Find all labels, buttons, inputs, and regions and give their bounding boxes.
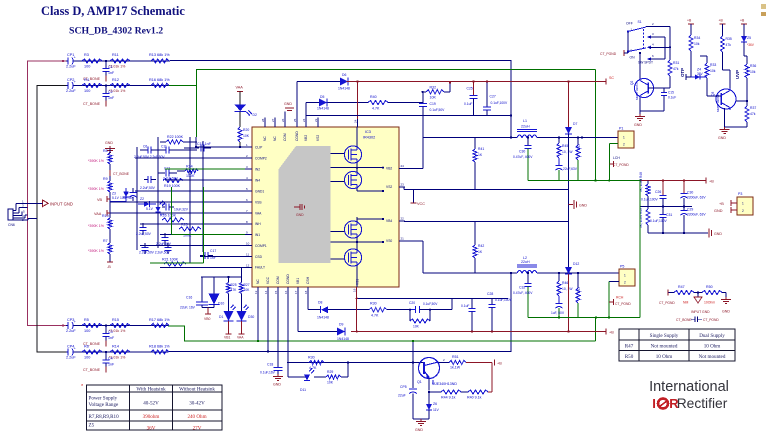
wire red vert xyxy=(491,363,493,393)
svg-text:CP2: CP2 xyxy=(67,78,74,82)
junction out1 xyxy=(510,136,512,138)
resistor R41 xyxy=(474,138,476,150)
svg-text:UVP: UVP xyxy=(735,70,740,79)
svg-text:28: 28 xyxy=(261,118,265,122)
resistor R13 xyxy=(151,59,169,63)
svg-text:CP5: CP5 xyxy=(400,385,407,389)
svg-text:P3: P3 xyxy=(738,192,742,196)
resistor R24 xyxy=(185,169,198,173)
capacitor CP2 xyxy=(68,82,74,90)
wire green bus upper xyxy=(528,180,641,182)
svg-text:R18 68k 1%: R18 68k 1% xyxy=(149,345,170,349)
junction xyxy=(472,80,474,82)
resistor R16 xyxy=(151,83,169,87)
led D11 xyxy=(303,376,307,378)
svg-text:11: 11 xyxy=(246,253,249,257)
resistor R47 xyxy=(674,290,694,294)
diode D9 1N4148 xyxy=(337,328,345,336)
transistor Q3 MMBT3906 xyxy=(716,89,736,109)
wire fault lines xyxy=(201,276,242,278)
svg-text:Power Supply: Power Supply xyxy=(89,396,118,402)
svg-text:D12: D12 xyxy=(573,262,579,266)
resistor R18 xyxy=(151,350,169,354)
wire M2 bottom xyxy=(356,188,358,191)
svg-text:R19 100K: R19 100K xyxy=(164,184,181,188)
svg-text:R45: R45 xyxy=(562,144,568,148)
wire out1 xyxy=(423,137,517,139)
svg-text:24: 24 xyxy=(401,164,405,168)
wire green feedback bottom xyxy=(168,326,596,341)
svg-text:10k: 10k xyxy=(694,42,700,46)
wire pin10 xyxy=(140,245,245,247)
table power supply options xyxy=(87,385,223,430)
wire base line xyxy=(287,362,424,364)
svg-text:R40: R40 xyxy=(370,95,377,99)
junction xyxy=(581,136,583,138)
wire vs2 node xyxy=(331,167,358,169)
wire xyxy=(109,254,111,262)
capacitor c-row3 xyxy=(144,179,148,181)
wire pin13 down xyxy=(257,296,259,342)
svg-text:VB1: VB1 xyxy=(224,336,231,340)
junction xyxy=(527,136,529,138)
wire out2 xyxy=(423,272,517,274)
svg-text:R14: R14 xyxy=(112,345,119,349)
svg-text:Single Supply: Single Supply xyxy=(650,333,679,339)
junction xyxy=(356,330,358,332)
svg-text:2.2uF,50V 2.2uF,50V: 2.2uF,50V 2.2uF,50V xyxy=(139,251,170,255)
junction xyxy=(356,80,358,82)
connector P1 xyxy=(618,131,634,148)
resistor R5 xyxy=(82,323,102,327)
svg-text:Class D, AMP17 Schematic: Class D, AMP17 Schematic xyxy=(41,4,185,18)
wire pin18 down xyxy=(307,296,309,310)
resistor R50 xyxy=(702,290,722,294)
svg-text:R6: R6 xyxy=(84,345,89,349)
junction xyxy=(105,84,107,86)
net CT_POND P5 xyxy=(609,301,613,303)
svg-text:C6: C6 xyxy=(143,145,147,149)
net CT_BONE row4 xyxy=(105,367,107,373)
svg-text:240 Ohm: 240 Ohm xyxy=(187,414,206,420)
svg-text:VS2: VS2 xyxy=(316,135,320,141)
capacitor C27b xyxy=(662,207,664,215)
svg-text:0.1uF,100V: 0.1uF,100V xyxy=(495,298,512,302)
svg-text:VB0: VB0 xyxy=(204,317,211,321)
wire pin8 xyxy=(140,223,245,225)
wire pin12 FAULT xyxy=(160,266,245,268)
svg-text:10K: 10K xyxy=(327,381,334,385)
svg-text:Q1: Q1 xyxy=(417,380,422,384)
svg-text:GND: GND xyxy=(634,123,642,127)
svg-text:1: 1 xyxy=(623,136,625,140)
ground top of bias chain xyxy=(109,146,111,149)
resistor R26 xyxy=(162,218,184,222)
IC die gray region xyxy=(279,146,331,263)
svg-text:22uF: 22uF xyxy=(398,394,406,398)
svg-text:R44 9.1k: R44 9.1k xyxy=(441,396,456,400)
top pin 28 NC xyxy=(264,118,266,128)
svg-text:10 Ohm: 10 Ohm xyxy=(704,344,721,350)
svg-text:100: 100 xyxy=(84,89,90,93)
svg-text:GND: GND xyxy=(579,204,587,208)
capacitor C28 xyxy=(491,298,493,304)
svg-text:+B: +B xyxy=(497,362,502,366)
wire D8 row xyxy=(308,309,321,311)
capacitor C16 xyxy=(196,301,208,303)
connector P5 xyxy=(619,269,635,286)
svg-text:C30: C30 xyxy=(687,191,693,195)
wire M1-M2 xyxy=(356,163,358,172)
svg-text:R47: R47 xyxy=(678,285,685,289)
switch contacts xyxy=(646,26,670,28)
svg-text:D11: D11 xyxy=(300,388,306,392)
resistor R40 xyxy=(368,100,388,104)
capacitor C31 xyxy=(556,303,563,305)
svg-text:1: 1 xyxy=(624,274,626,278)
wire black input ground rail xyxy=(37,86,66,353)
wire green vert B xyxy=(203,187,205,263)
svg-text:CT_POND: CT_POND xyxy=(615,302,631,306)
right pin 23 VS2 xyxy=(399,186,405,188)
svg-text:1K: 1K xyxy=(478,153,483,157)
resistor R14 xyxy=(110,350,130,354)
transistor M2 MOSFET xyxy=(344,171,361,188)
svg-text:R46: R46 xyxy=(562,281,568,285)
wire VS2 node xyxy=(422,116,424,138)
wire pin5 to tick xyxy=(627,52,629,54)
svg-text:R7,R8,R9,R10: R7,R8,R9,R10 xyxy=(89,414,120,420)
ground R50 xyxy=(725,293,727,298)
svg-text:Z3: Z3 xyxy=(112,192,116,196)
pin 11 CSD xyxy=(245,256,252,258)
svg-text:VSS: VSS xyxy=(255,200,262,204)
wire pin7 VAA xyxy=(110,212,245,214)
wire VS1 node xyxy=(422,241,424,273)
resistor R39 parallel xyxy=(409,310,411,321)
capacitor C28e xyxy=(683,181,685,194)
pin 12 FAULT xyxy=(245,266,252,268)
capacitor C20 series xyxy=(410,309,416,311)
junction xyxy=(105,351,107,353)
op-amp U1 IC3 IR4302 body xyxy=(252,127,399,287)
svg-text:0.47uF, 400V: 0.47uF, 400V xyxy=(513,291,533,295)
capacitor C18 xyxy=(274,367,283,369)
svg-text:P5: P5 xyxy=(620,265,624,269)
svg-text:+B: +B xyxy=(740,19,745,23)
wire xyxy=(109,229,111,243)
svg-text:4.7K: 4.7K xyxy=(309,366,317,370)
svg-text:R27: R27 xyxy=(244,283,250,287)
svg-text:R35: R35 xyxy=(726,37,732,41)
svg-text:C17: C17 xyxy=(210,249,216,253)
wire Q2 collector xyxy=(639,53,641,79)
wire rowB to rowA xyxy=(432,309,452,311)
pin 3 IN2 xyxy=(245,168,252,170)
wire collector xyxy=(439,362,450,364)
wire pin11 CSD xyxy=(200,256,245,258)
wire Q2 base xyxy=(648,87,670,89)
net CT_BONE row3 xyxy=(105,341,107,347)
capacitor C15 xyxy=(184,147,199,149)
wire D5 row xyxy=(306,102,319,104)
net VB0 xyxy=(207,308,209,315)
wire Q3 base xyxy=(715,95,721,97)
resistor R32 xyxy=(423,91,427,93)
svg-text:4.7K: 4.7K xyxy=(372,107,380,111)
wire cluster vertical b xyxy=(157,137,159,248)
svg-text:2: 2 xyxy=(624,281,626,285)
top pin 25 CGND xyxy=(296,118,298,128)
svg-text:5.1V: 5.1V xyxy=(146,207,154,211)
svg-text:24: 24 xyxy=(302,118,306,122)
capacitor C25 xyxy=(473,82,475,96)
svg-text:INPUT GND: INPUT GND xyxy=(691,310,710,314)
wire branch join xyxy=(347,363,349,378)
svg-text:0.1uF,50V: 0.1uF,50V xyxy=(430,108,446,112)
ground Q3 xyxy=(724,127,726,130)
pin 5 GND1 xyxy=(245,190,252,192)
led D14 xyxy=(241,294,243,312)
svg-text:CT_PGND: CT_PGND xyxy=(600,52,617,56)
wire mid line 2 xyxy=(399,220,404,222)
svg-text:C20: C20 xyxy=(409,301,415,305)
svg-text:23: 23 xyxy=(314,118,318,122)
svg-text:R31: R31 xyxy=(673,61,679,65)
svg-text:100K: 100K xyxy=(183,234,192,238)
svg-text:R22 100K: R22 100K xyxy=(167,135,184,139)
ground C18 xyxy=(277,374,279,377)
svg-text:23: 23 xyxy=(401,183,405,187)
svg-text:100K: 100K xyxy=(186,174,195,178)
svg-text:CT_BONE: CT_BONE xyxy=(676,318,692,322)
svg-text:C5: C5 xyxy=(124,191,128,195)
resistor R22 xyxy=(166,140,183,144)
resistor R30b xyxy=(369,308,387,312)
svg-text:47k: 47k xyxy=(673,67,679,71)
svg-text:1N4148: 1N4148 xyxy=(337,337,349,341)
svg-text:10, 1W: 10, 1W xyxy=(562,150,573,154)
top pin 24 VB xyxy=(357,119,359,127)
svg-text:0.1uF,100V: 0.1uF,100V xyxy=(641,198,658,202)
svg-text:VAA: VAA xyxy=(237,336,244,340)
svg-text:C10: C10 xyxy=(159,202,165,206)
svg-text:+B: +B xyxy=(687,19,692,23)
capacitor c-row6 pair xyxy=(142,247,149,249)
capacitor CP3 xyxy=(68,322,74,330)
capacitor C1 xyxy=(105,61,107,68)
svg-text:IN1: IN1 xyxy=(255,233,260,237)
resistor R7 xyxy=(108,243,112,254)
junction xyxy=(558,316,560,318)
svg-text:R42: R42 xyxy=(478,244,484,248)
capacitor c-row4 xyxy=(140,227,147,229)
svg-text:NM: NM xyxy=(683,301,688,305)
wire M3-M4 xyxy=(356,238,358,250)
resistor R35 xyxy=(722,24,724,36)
wire gate3 xyxy=(331,231,346,233)
net VB xyxy=(106,196,108,202)
wire vs1 node xyxy=(331,241,358,243)
svg-text:Dual Supply: Dual Supply xyxy=(699,333,725,339)
junction xyxy=(428,391,430,393)
svg-text:IR4302: IR4302 xyxy=(363,136,375,140)
svg-text:*390K 1%: *390K 1% xyxy=(88,187,105,191)
svg-text:R23: R23 xyxy=(181,223,188,227)
resistor R31 xyxy=(668,60,672,76)
wire cluster vertical a xyxy=(136,147,138,250)
resistor R6 xyxy=(82,350,102,354)
svg-text:R47: R47 xyxy=(625,344,634,350)
net +B P3 xyxy=(731,202,737,204)
capacitor C26 xyxy=(662,181,664,196)
inductor L2 xyxy=(517,271,537,274)
svg-text:R29: R29 xyxy=(327,370,333,374)
resistor R44 xyxy=(429,391,441,393)
net CT_BONE row1 xyxy=(105,76,107,82)
input gnd mid xyxy=(697,291,699,293)
wire rowA xyxy=(357,297,508,299)
bottom pin 13 NC xyxy=(257,287,259,296)
svg-text:10k: 10k xyxy=(750,70,756,74)
wire switch common xyxy=(627,32,629,52)
svg-text:CT_PGND: CT_PGND xyxy=(659,301,675,305)
svg-text:GND: GND xyxy=(714,209,723,213)
pin 6 VSS xyxy=(245,201,252,203)
svg-text:Z5: Z5 xyxy=(747,36,751,40)
wire gnd join xyxy=(413,418,429,420)
svg-text:2200uF, 63V: 2200uF, 63V xyxy=(687,213,706,217)
svg-text:16: 16 xyxy=(284,290,288,294)
wire D9 row xyxy=(298,331,337,333)
svg-text:0.1uF,50V: 0.1uF,50V xyxy=(423,302,438,306)
connector CN6 xyxy=(8,209,13,220)
resistor R20 xyxy=(239,112,241,128)
svg-text:R30: R30 xyxy=(308,356,315,360)
svg-text:GND: GND xyxy=(718,136,726,140)
svg-text:VCC: VCC xyxy=(417,202,425,206)
svg-text:*390K 1%: *390K 1% xyxy=(88,224,105,228)
svg-text:CT_BONE: CT_BONE xyxy=(83,102,101,106)
wire row1 xyxy=(66,60,170,62)
resistor R8 xyxy=(108,153,112,164)
svg-text:5.1V: 5.1V xyxy=(112,196,120,200)
bottom pin 18 CSH xyxy=(307,287,309,296)
resistor R43 xyxy=(577,138,579,146)
wire pin16 down xyxy=(287,296,289,378)
svg-text:10K: 10K xyxy=(243,134,250,138)
inductor L1 xyxy=(517,135,537,138)
switch arms xyxy=(628,27,646,32)
svg-text:R25: R25 xyxy=(231,283,237,287)
svg-text:VB1: VB1 xyxy=(296,278,300,284)
svg-text:-B: -B xyxy=(107,265,111,269)
svg-text:1k,1W: 1k,1W xyxy=(450,366,461,370)
resistor R15 xyxy=(110,323,130,327)
svg-text:R43: R43 xyxy=(577,144,581,150)
svg-text:Not mounted: Not mounted xyxy=(651,344,678,350)
resistor R9 xyxy=(108,181,112,192)
transistor Q1 MJE340 xyxy=(419,358,440,379)
wire green comp xyxy=(150,262,204,264)
svg-text:R41: R41 xyxy=(478,147,484,151)
resistor R10 xyxy=(108,218,112,229)
svg-text:D5: D5 xyxy=(320,95,324,99)
resistor R3 xyxy=(82,59,102,63)
svg-text:INPUT GND: INPUT GND xyxy=(50,202,73,207)
pin 4 IN4 xyxy=(245,179,252,181)
svg-text:R17 68k 1%: R17 68k 1% xyxy=(149,318,170,322)
ground mid xyxy=(569,204,574,206)
svg-text:15: 15 xyxy=(274,290,278,294)
svg-text:L1: L1 xyxy=(523,119,527,123)
svg-text:R8: R8 xyxy=(103,149,108,153)
svg-text:2.2uF: 2.2uF xyxy=(66,356,76,360)
svg-text:Q3: Q3 xyxy=(711,92,715,96)
svg-text:14: 14 xyxy=(264,290,268,294)
svg-text:GND: GND xyxy=(415,428,423,432)
svg-text:10: 10 xyxy=(246,242,250,246)
svg-text:With Heatsink: With Heatsink xyxy=(136,387,166,393)
diode D6 1N4148 xyxy=(340,78,348,86)
svg-text:2.2uF: 2.2uF xyxy=(66,89,76,93)
svg-text:VAA: VAA xyxy=(94,212,102,216)
resistor R21 xyxy=(164,262,186,266)
svg-text:36V: 36V xyxy=(697,72,704,76)
svg-text:100: 100 xyxy=(84,65,90,69)
svg-text:C29: C29 xyxy=(687,208,693,212)
svg-text:Z5: Z5 xyxy=(89,423,95,429)
wire P5 pin2 xyxy=(609,281,619,283)
svg-text:R30: R30 xyxy=(370,302,377,306)
svg-text:25: 25 xyxy=(293,118,297,122)
led D1 xyxy=(155,207,160,212)
svg-text:CP1: CP1 xyxy=(67,53,74,57)
svg-text:22uF, 16V: 22uF, 16V xyxy=(180,306,196,310)
junction xyxy=(105,324,107,326)
wire R33 top xyxy=(700,55,707,57)
svg-text:VB: VB xyxy=(97,198,103,202)
transistor M4 MOSFET xyxy=(344,249,361,266)
net CT_POND P1 xyxy=(609,163,613,165)
svg-text:10 Ohm: 10 Ohm xyxy=(656,354,673,360)
svg-text:ON: ON xyxy=(630,56,636,60)
svg-text:2: 2 xyxy=(623,143,625,147)
svg-text:0.1uF: 0.1uF xyxy=(668,96,676,100)
svg-text:1uF, 50V: 1uF, 50V xyxy=(551,311,565,315)
wire pin17 down xyxy=(297,296,299,332)
wire green feedback top xyxy=(168,70,596,86)
svg-text:R32: R32 xyxy=(430,86,437,90)
wire gnd rail xyxy=(648,232,706,234)
svg-text:COM: COM xyxy=(276,276,280,284)
capacitor C27 xyxy=(486,82,488,107)
svg-text:VB4: VB4 xyxy=(386,219,392,223)
svg-text:COMP2: COMP2 xyxy=(255,156,267,160)
svg-text:MMBT3906 L: MMBT3906 L xyxy=(635,82,639,100)
svg-text:D9: D9 xyxy=(339,323,343,327)
svg-text:C16: C16 xyxy=(186,296,192,300)
wire R37 bottom join xyxy=(725,126,747,128)
right pin 22 VB4 xyxy=(399,220,405,222)
capacitor C15 xyxy=(663,88,665,92)
svg-text:Z6: Z6 xyxy=(433,402,437,406)
wire pin2 xyxy=(135,157,245,159)
svg-text:10Ohm: 10Ohm xyxy=(704,301,715,305)
wire green right vert B xyxy=(639,181,641,318)
right pin 24 VB2 xyxy=(399,168,405,170)
capacitor C29 xyxy=(683,207,685,211)
